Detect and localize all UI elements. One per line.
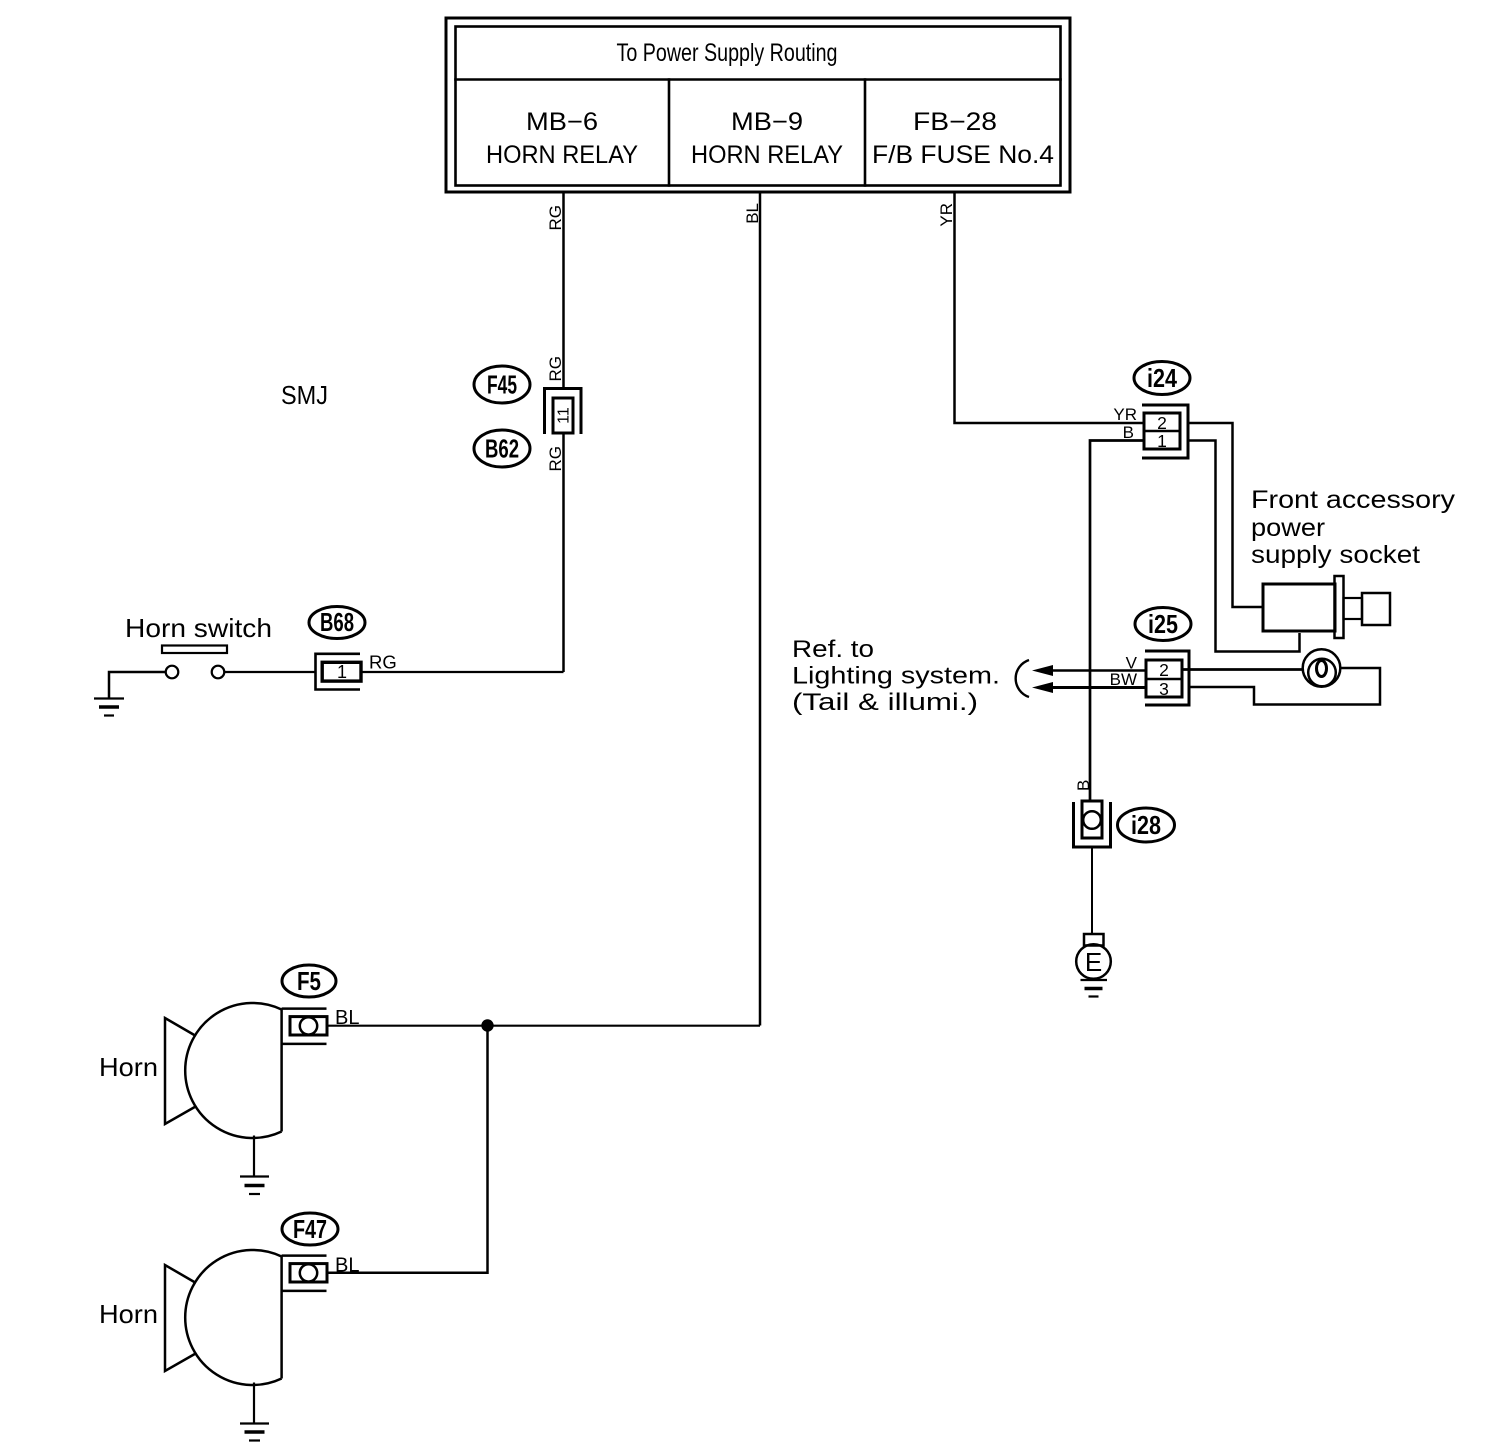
i25 connector pin box xyxy=(1146,660,1182,697)
cell divider 2 xyxy=(864,80,867,186)
arrow wire V to lighting system xyxy=(1050,669,1146,671)
svg-text:Horn: Horn xyxy=(99,1299,158,1329)
svg-text:RG: RG xyxy=(369,652,397,673)
ground symbol E xyxy=(1081,980,1108,997)
ground symbol horn 2 xyxy=(240,1424,269,1441)
horn 1 ground stem xyxy=(253,1136,255,1177)
SMJ connector pin box 11 xyxy=(553,398,573,433)
svg-text:BL: BL xyxy=(743,203,762,224)
wire horn2 up to junction xyxy=(327,1026,488,1273)
svg-text:YR: YR xyxy=(1113,405,1137,424)
wire i24 pin2 to socket xyxy=(1188,423,1263,607)
wire RG from SMJ down to horn switch line xyxy=(562,433,565,672)
svg-text:power: power xyxy=(1251,514,1325,542)
F47 connector circle xyxy=(300,1264,317,1281)
svg-text:Horn: Horn xyxy=(99,1052,158,1082)
svg-text:supply socket: supply socket xyxy=(1251,541,1420,569)
svg-text:2: 2 xyxy=(1157,413,1167,433)
svg-text:HORN RELAY: HORN RELAY xyxy=(691,141,843,169)
F47 connector rails xyxy=(282,1256,327,1291)
F5 connector box xyxy=(290,1017,327,1035)
svg-text:YR: YR xyxy=(937,203,956,227)
horn switch actuator bar xyxy=(162,646,227,654)
wire B68 to RG vertical xyxy=(361,671,564,673)
socket knob xyxy=(1362,593,1390,625)
cell divider 1 xyxy=(668,80,671,186)
svg-text:Lighting system.: Lighting system. xyxy=(792,663,1000,690)
brace paren xyxy=(1016,660,1029,697)
svg-text:F45: F45 xyxy=(487,370,517,400)
i24 connector pin box xyxy=(1144,413,1180,449)
wire i25 pin2 to bulb xyxy=(1182,668,1303,671)
ground E base rect xyxy=(1084,934,1104,946)
svg-text:MB−9: MB−9 xyxy=(731,108,803,136)
F5 connector rails xyxy=(282,1009,327,1044)
socket body xyxy=(1263,584,1335,631)
horn 1 cone xyxy=(165,1018,197,1124)
svg-text:RG: RG xyxy=(546,356,565,382)
connector ellipse i25 xyxy=(1135,608,1191,641)
socket neck xyxy=(1344,598,1363,619)
horn 1 dome xyxy=(185,1003,281,1138)
power supply routing box outer frame xyxy=(446,18,1070,192)
svg-text:B: B xyxy=(1074,780,1093,791)
svg-text:B68: B68 xyxy=(320,607,354,637)
bulb filament xyxy=(1317,661,1327,677)
horn 2 ground stem xyxy=(253,1383,255,1424)
connector ellipse B62 xyxy=(474,430,530,467)
svg-text:1: 1 xyxy=(1157,431,1167,451)
svg-text:RG: RG xyxy=(546,205,565,231)
svg-text:i25: i25 xyxy=(1148,609,1178,639)
svg-text:11: 11 xyxy=(556,407,573,424)
svg-text:i24: i24 xyxy=(1147,363,1177,393)
svg-text:2: 2 xyxy=(1159,660,1169,680)
ground symbol horn switch xyxy=(94,699,124,716)
svg-text:B62: B62 xyxy=(485,434,519,464)
svg-text:3: 3 xyxy=(1159,679,1169,699)
B68 connector bracket xyxy=(316,654,361,690)
wire i28 to ground E xyxy=(1091,847,1093,934)
arrow wire BW to lighting system xyxy=(1050,686,1146,689)
F5 connector circle xyxy=(300,1017,317,1034)
wire YR vertical from FB-28 and horizontal to i24 xyxy=(955,192,1145,423)
connector ellipse i28 xyxy=(1118,808,1175,842)
connector ellipse F47 xyxy=(282,1213,338,1245)
header divider xyxy=(456,78,1061,81)
horn switch contact circle left xyxy=(166,666,179,679)
i28 connector circle xyxy=(1083,811,1101,829)
svg-text:To Power Supply Routing: To Power Supply Routing xyxy=(617,39,838,67)
i28 connector bracket xyxy=(1074,802,1111,847)
bulb inner circle xyxy=(1308,659,1336,687)
connector ellipse F5 xyxy=(282,965,336,997)
svg-text:F47: F47 xyxy=(293,1214,327,1244)
wire BL vertical from MB-9 xyxy=(759,192,762,1026)
wire ground to switch xyxy=(109,672,166,698)
wire RG vertical from MB-6 xyxy=(562,192,565,389)
SMJ connector bracket F45/B62 xyxy=(545,389,582,435)
horn 2 dome xyxy=(185,1250,281,1385)
horn 2 cone xyxy=(165,1265,197,1371)
svg-text:HORN RELAY: HORN RELAY xyxy=(486,141,638,169)
svg-text:Front accessory: Front accessory xyxy=(1251,486,1456,514)
svg-text:(Tail & illumi.): (Tail & illumi.) xyxy=(792,689,978,716)
svg-text:FB−28: FB−28 xyxy=(913,108,997,136)
svg-text:MB−6: MB−6 xyxy=(526,108,598,136)
wire bulb loop back to i25 pin3 xyxy=(1189,668,1380,705)
F47 connector box xyxy=(290,1264,327,1282)
junction dot xyxy=(481,1019,493,1031)
svg-text:Horn switch: Horn switch xyxy=(125,613,272,643)
i25 connector bracket xyxy=(1145,651,1189,705)
wire horn1 to BL wire xyxy=(327,1025,760,1027)
svg-text:Ref. to: Ref. to xyxy=(792,636,874,663)
connector ellipse B68 xyxy=(309,607,365,639)
wire i24 pin1 to socket bottom xyxy=(1188,441,1300,652)
connector ellipse F45 xyxy=(474,366,530,403)
socket flange xyxy=(1335,576,1344,638)
wire switch to B68 connector xyxy=(225,671,316,673)
i28 connector pin box xyxy=(1082,801,1102,838)
svg-text:1: 1 xyxy=(337,662,347,682)
svg-text:SMJ: SMJ xyxy=(281,380,328,410)
bulb outer circle xyxy=(1303,649,1341,687)
i24 connector bracket xyxy=(1142,405,1188,458)
svg-text:i28: i28 xyxy=(1131,810,1161,840)
B68 connector pin box 1 xyxy=(322,662,361,681)
ground symbol horn 1 xyxy=(240,1177,269,1195)
svg-text:F5: F5 xyxy=(297,966,321,996)
wire B from i24 pin1 down to i28 xyxy=(1090,441,1144,802)
power supply routing box inner frame xyxy=(456,27,1061,186)
svg-text:F/B FUSE No.4: F/B FUSE No.4 xyxy=(872,141,1054,169)
svg-text:E: E xyxy=(1085,947,1102,977)
svg-text:RG: RG xyxy=(546,446,565,472)
connector ellipse i24 xyxy=(1134,362,1190,395)
horn switch contact circle right xyxy=(212,666,225,679)
ground E circle xyxy=(1076,944,1111,979)
